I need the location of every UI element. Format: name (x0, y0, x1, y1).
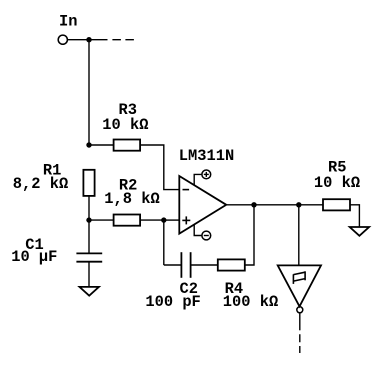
positive supply pin (194, 170, 211, 185)
minus input sign (183, 189, 190, 191)
wire to C2 (164, 264, 182, 266)
input terminal (58, 35, 67, 44)
wire node to R3 (89, 144, 114, 146)
wire input down to R3 node (88, 40, 90, 145)
svg-text:In: In (59, 13, 77, 31)
wire R1 bottom to node (88, 196, 90, 220)
negative supply pin (194, 225, 211, 240)
op-amp U1 LM311N (179, 176, 226, 234)
wire input to junction (68, 39, 108, 41)
node output junction 1 (251, 202, 256, 207)
wire dashed below (299, 334, 301, 353)
wire below bubble (299, 313, 301, 331)
resistor R3 (114, 140, 141, 151)
node input junction (86, 37, 91, 42)
svg-text:10 kΩ: 10 kΩ (314, 174, 360, 192)
node R2 left junction (86, 217, 91, 222)
resistor R5 (323, 199, 350, 210)
wire feedback down from plus node (163, 220, 165, 265)
probe symbol triangle (278, 265, 321, 306)
wire C2 to R4 (191, 264, 218, 266)
capacitor C1 (76, 253, 102, 261)
node plus input junction (161, 217, 166, 222)
resistor R4 (218, 259, 245, 270)
wire node to R2 (89, 219, 114, 221)
wire output node down to probe (298, 205, 300, 266)
svg-text:100 pF: 100 pF (145, 293, 200, 311)
plus input sign (182, 216, 190, 224)
wire R4 up to output (245, 205, 254, 265)
node R3 junction (86, 142, 91, 147)
probe flag glyph (293, 271, 305, 284)
svg-text:100 kΩ: 100 kΩ (223, 293, 278, 311)
wire C1 to ground (88, 262, 90, 287)
wire R5 to ground corner (350, 205, 359, 227)
svg-text:10 kΩ: 10 kΩ (102, 116, 148, 134)
node output junction 2 (296, 202, 301, 207)
wire output (226, 204, 323, 206)
svg-text:LM311N: LM311N (179, 147, 234, 165)
wire node down to C1 (88, 220, 90, 253)
wire R2 to plus node (140, 219, 164, 221)
resistor R2 (114, 215, 141, 226)
probe output bubble (297, 307, 303, 313)
wire node to plus input (164, 219, 180, 221)
capacitor C2 (181, 252, 190, 278)
wire R3 to corner and down to minus input (140, 145, 179, 190)
svg-text:10 µF: 10 µF (11, 248, 57, 266)
resistor R1 (83, 170, 94, 196)
svg-text:8,2 kΩ: 8,2 kΩ (13, 175, 68, 193)
ground below R5 (350, 227, 369, 236)
ground below C1 (80, 287, 99, 296)
wire dashed continuation (112, 39, 134, 41)
svg-text:1,8 kΩ: 1,8 kΩ (104, 190, 159, 208)
